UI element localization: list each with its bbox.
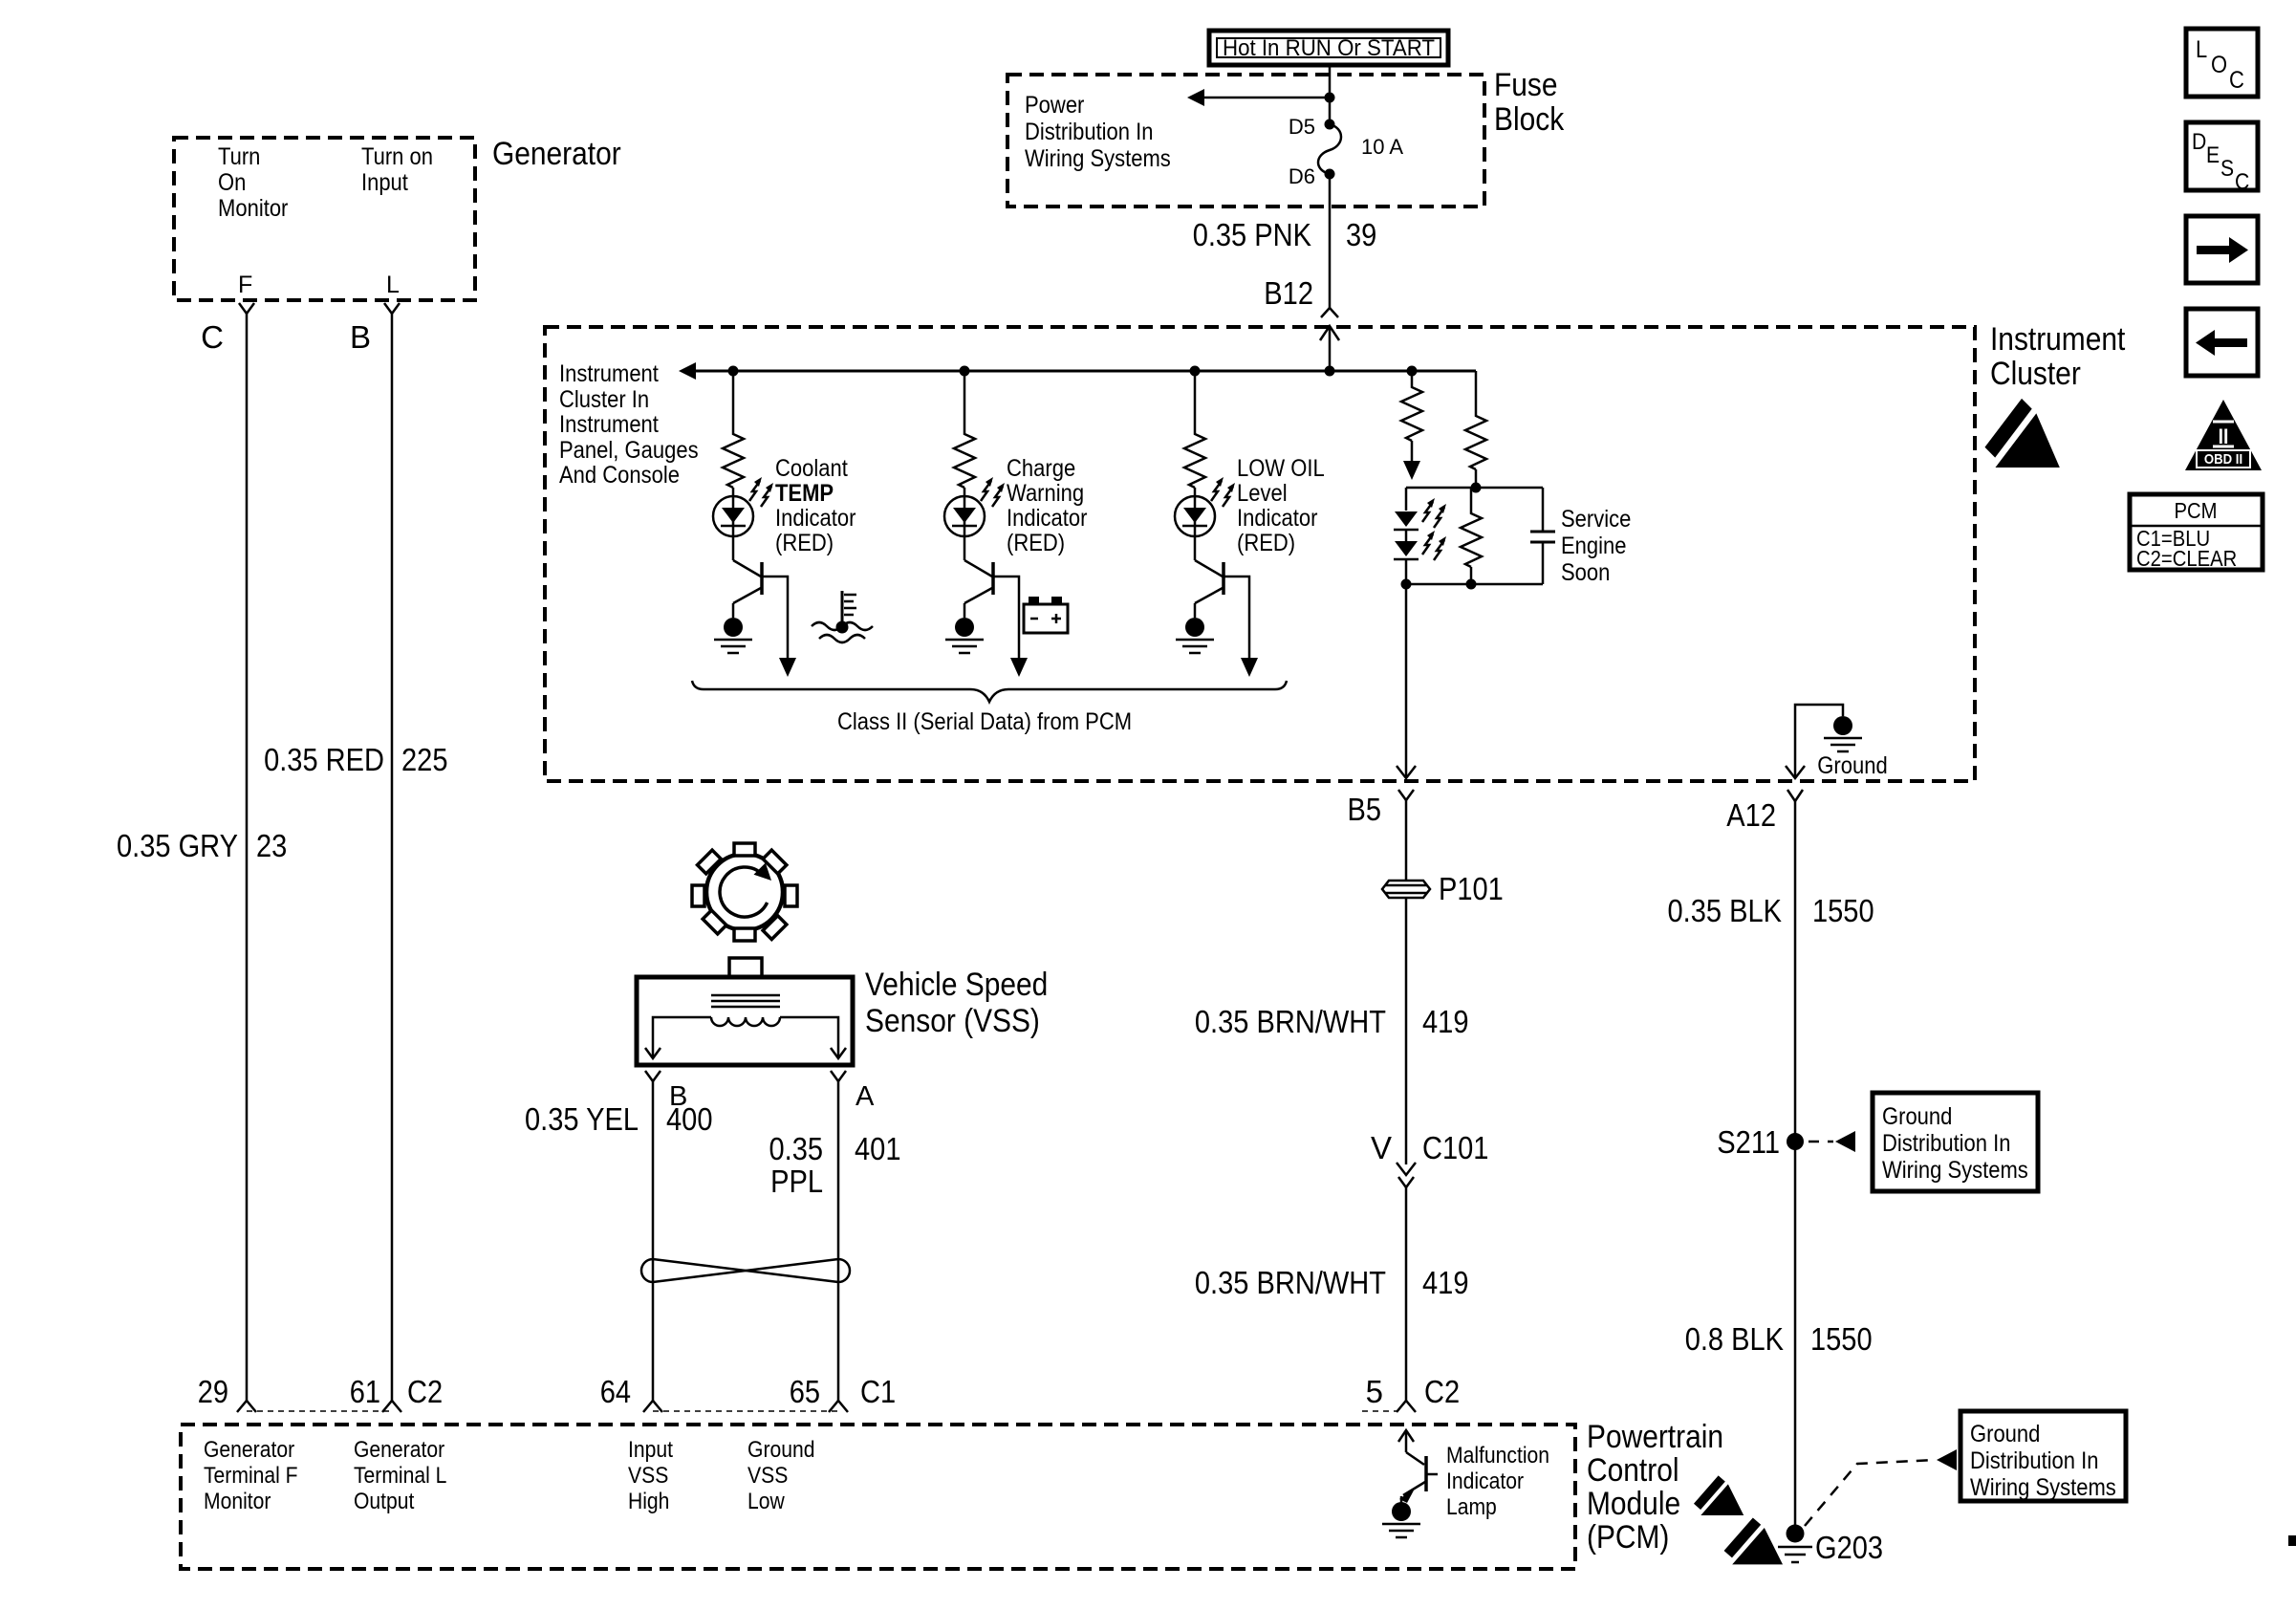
svg-text:Block: Block [1494, 101, 1565, 138]
svg-text:C1: C1 [860, 1374, 896, 1409]
svg-text:Lamp: Lamp [1446, 1494, 1497, 1520]
svg-text:400: 400 [666, 1101, 713, 1137]
svg-text:And Console: And Console [559, 462, 680, 489]
svg-text:High: High [628, 1489, 669, 1514]
svg-text:P101: P101 [1439, 871, 1504, 906]
svg-text:C: C [2235, 169, 2249, 195]
wire from Hot box into fuse block [1329, 65, 1332, 124]
svg-text:Vehicle Speed: Vehicle Speed [865, 967, 1048, 1003]
wire [1194, 371, 1197, 430]
wire [1475, 469, 1478, 488]
svg-text:S: S [2220, 156, 2234, 182]
svg-text:Turn: Turn [218, 143, 260, 170]
resistor (SES driver) [1401, 383, 1422, 441]
icon: OBD II triangle [2185, 400, 2262, 470]
svg-text:Distribution In: Distribution In [1970, 1447, 2099, 1474]
svg-text:Instrument: Instrument [559, 360, 659, 387]
svg-text:D6: D6 [1289, 164, 1315, 188]
svg-text:PCM: PCM [2175, 498, 2218, 523]
SES lamp network top rail [1406, 487, 1543, 490]
svg-text:0.35 BLK: 0.35 BLK [1668, 893, 1783, 928]
icon: battery [1024, 597, 1068, 633]
svg-text:(RED): (RED) [1007, 530, 1065, 556]
svg-text:Cluster In: Cluster In [559, 386, 649, 413]
svg-text:23: 23 [256, 828, 287, 863]
ground (MIL driver) [1382, 1502, 1420, 1537]
svg-text:Indicator: Indicator [775, 505, 856, 532]
svg-text:Powertrain: Powertrain [1587, 1419, 1723, 1455]
svg-text:Panel, Gauges: Panel, Gauges [559, 437, 699, 464]
vehicle speed sensor reluctor gear icon [673, 820, 816, 964]
node: junction to power distribution [1325, 93, 1335, 103]
svg-text:Level: Level [1237, 480, 1288, 507]
wire: arrow to Power Distribution [1197, 97, 1330, 99]
node on bus B12 feed [1325, 366, 1335, 377]
svg-text:Wiring Systems: Wiring Systems [1970, 1474, 2116, 1501]
dashed reference arrow from S211 [1809, 1141, 1833, 1143]
icon: right arrow box [2186, 216, 2258, 283]
generator dashed box [174, 138, 475, 300]
connector B (VSS) [645, 1071, 661, 1081]
svg-text:Generator: Generator [354, 1437, 444, 1463]
leads [653, 1017, 711, 1057]
svg-text:401: 401 [855, 1131, 901, 1166]
svg-text:PPL: PPL [770, 1164, 823, 1199]
fuse D5/D6 10 A [1289, 115, 1403, 188]
svg-text:Ground: Ground [1970, 1421, 2040, 1447]
splice S211 [1787, 1133, 1804, 1150]
LED coolant temp indicator [713, 496, 753, 536]
svg-text:D5: D5 [1289, 115, 1315, 139]
wire: 0.35 BRN/WHT 419 lower [1405, 1187, 1408, 1401]
svg-text:On: On [218, 169, 246, 196]
connector line C1 [653, 1410, 838, 1412]
pass-through P101 [1382, 871, 1504, 906]
svg-text:S211: S211 [1717, 1124, 1780, 1160]
box: Ground Distribution In Wiring Systems (G203) [1960, 1411, 2126, 1501]
svg-text:Hot In RUN Or START: Hot In RUN Or START [1223, 35, 1435, 61]
wire: 0.35 YEL 400 [652, 1081, 655, 1401]
wire: 0.35 PPL 401 [837, 1081, 840, 1401]
svg-text:Wiring Systems: Wiring Systems [1025, 145, 1171, 172]
svg-text:Distribution In: Distribution In [1882, 1130, 2011, 1157]
wire from SES to B5 [1405, 584, 1408, 777]
transistor driver (charge) [964, 560, 992, 577]
connector C2 pin 5 [1397, 1401, 1416, 1412]
ground symbol (instrument cluster) [1824, 716, 1862, 751]
svg-text:Low: Low [747, 1489, 785, 1514]
icon: DESC box [2186, 122, 2258, 195]
svg-text:Terminal F: Terminal F [204, 1463, 298, 1489]
wire: 0.35 BRN/WHT 419 [1405, 898, 1408, 1164]
wire: 0.35 BLK 1550 [1794, 801, 1797, 1142]
svg-text:5: 5 [1366, 1374, 1383, 1409]
page edge artifact [2288, 1535, 2296, 1546]
svg-text:Input: Input [628, 1437, 673, 1463]
ESD symbol (PCM lower) [1724, 1517, 1783, 1564]
svg-text:E: E [2206, 142, 2220, 168]
node on bus branch 1 [728, 366, 739, 377]
twisted pair symbol [641, 1259, 850, 1282]
ESD symbol (instrument cluster) [1984, 399, 2059, 468]
svg-text:Turn on: Turn on [361, 143, 433, 170]
core [711, 994, 780, 997]
svg-text:0.35 YEL: 0.35 YEL [525, 1101, 639, 1137]
wire [1194, 488, 1197, 536]
svg-text:V: V [1371, 1130, 1392, 1165]
svg-text:0.35 BRN/WHT: 0.35 BRN/WHT [1195, 1004, 1386, 1039]
resistor (charge warning indicator) [954, 430, 975, 488]
capacitor (SES) [1542, 488, 1545, 532]
svg-text:(RED): (RED) [775, 530, 834, 556]
svg-text:Monitor: Monitor [218, 195, 288, 222]
resistor (low oil indicator) [1184, 430, 1205, 488]
svg-text:B: B [350, 319, 371, 355]
service engine soon lamp circuit [1394, 371, 1555, 590]
svg-text:1550: 1550 [1812, 893, 1874, 928]
svg-text:G203: G203 [1815, 1530, 1883, 1565]
ground (charge driver) [945, 618, 984, 653]
pin 61 [382, 1401, 401, 1412]
connector A (VSS) [831, 1071, 846, 1081]
ESD symbol (PCM upper) [1694, 1475, 1744, 1515]
svg-text:Input: Input [361, 169, 408, 196]
svg-text:0.35 GRY: 0.35 GRY [117, 828, 238, 863]
svg-text:A12: A12 [1726, 797, 1776, 833]
vehicle speed sensor body [637, 958, 853, 1065]
svg-text:C: C [2229, 67, 2244, 94]
svg-text:0.35 RED: 0.35 RED [264, 742, 384, 777]
svg-text:Generator: Generator [492, 136, 621, 172]
LED pair (service engine soon) [1405, 488, 1408, 511]
svg-text:Monitor: Monitor [204, 1489, 271, 1514]
coil [711, 1017, 780, 1026]
svg-text:Generator: Generator [204, 1437, 294, 1463]
svg-text:Indicator: Indicator [1007, 505, 1087, 532]
svg-text:419: 419 [1422, 1265, 1469, 1300]
resistor (SES supply) [1465, 412, 1486, 469]
legend box: PCM connectors [2130, 494, 2263, 571]
svg-text:Service: Service [1561, 506, 1631, 533]
LED low oil level indicator [1175, 496, 1215, 536]
svg-text:VSS: VSS [747, 1463, 788, 1489]
svg-text:(RED): (RED) [1237, 530, 1295, 556]
svg-text:225: 225 [401, 742, 448, 777]
box: Ground Distribution In Wiring Systems (S211) [1873, 1093, 2038, 1191]
wire [732, 536, 735, 560]
svg-text:0.35 BRN/WHT: 0.35 BRN/WHT [1195, 1265, 1386, 1300]
node on bus branch 2 [960, 366, 970, 377]
wire with arrow into lamp [1411, 441, 1414, 463]
wire: 0.35 PNK 39 from fuse to B12 [1329, 174, 1332, 308]
svg-text:Output: Output [354, 1489, 415, 1514]
svg-text:OBD II: OBD II [2204, 451, 2242, 468]
wire [1194, 536, 1197, 560]
svg-text:29: 29 [198, 1374, 228, 1409]
connector A12 [1787, 790, 1803, 801]
SES lamp network bottom rail [1406, 583, 1543, 586]
icon: left arrow box [2186, 309, 2258, 376]
svg-text:C101: C101 [1422, 1130, 1488, 1165]
svg-text:Wiring Systems: Wiring Systems [1882, 1157, 2028, 1184]
svg-text:0.8 BLK: 0.8 BLK [1685, 1321, 1784, 1357]
svg-text:Class II (Serial Data) from PC: Class II (Serial Data) from PCM [837, 708, 1132, 735]
pin 65 [829, 1401, 848, 1412]
svg-text:39: 39 [1346, 217, 1376, 252]
svg-text:C2: C2 [1424, 1374, 1460, 1409]
svg-text:Malfunction: Malfunction [1446, 1443, 1549, 1469]
svg-text:L: L [386, 272, 400, 298]
svg-text:10 A: 10 A [1361, 135, 1403, 159]
fuse block dashed box [1007, 75, 1484, 207]
svg-text:Engine: Engine [1561, 533, 1627, 559]
svg-text:LOW OIL: LOW OIL [1237, 455, 1325, 482]
svg-text:C2=CLEAR: C2=CLEAR [2136, 546, 2237, 571]
svg-text:Terminal L: Terminal L [354, 1463, 446, 1489]
wire (SES supply from bus corner) [1475, 371, 1478, 412]
wire: serial data bus inside cluster [682, 370, 1476, 373]
wire (SES driver) [1411, 371, 1414, 383]
svg-text:0.35: 0.35 [769, 1131, 824, 1166]
indicator branch 1: Coolant TEMP [713, 371, 796, 677]
svg-text:Ground: Ground [1882, 1103, 1952, 1130]
arrow out of cluster [1786, 766, 1805, 778]
icon: LOC box [2186, 29, 2258, 97]
wire: 0.8 BLK 1550 [1794, 1142, 1797, 1526]
svg-text:Ground: Ground [1817, 752, 1887, 779]
resistor (coolant temp indicator) [723, 430, 744, 488]
transistor driver (coolant) [733, 560, 761, 577]
svg-text:61: 61 [350, 1374, 380, 1409]
svg-text:II: II [2219, 424, 2229, 448]
box: Hot In RUN Or START [1209, 31, 1448, 65]
wire: 0.35 RED 225 (generator L to PCM 61) [391, 314, 394, 1401]
svg-text:L: L [2196, 36, 2207, 63]
svg-text:VSS: VSS [628, 1463, 668, 1489]
svg-text:Coolant: Coolant [775, 455, 848, 482]
svg-text:TEMP: TEMP [775, 480, 834, 507]
svg-text:1550: 1550 [1810, 1321, 1873, 1357]
transistor driver (low oil) [1195, 560, 1223, 577]
brace: Class II (Serial Data) from PCM [692, 681, 1287, 702]
svg-text:(PCM): (PCM) [1587, 1519, 1669, 1556]
indicator branch 2: Charge Warning [944, 371, 1028, 677]
svg-text:A: A [856, 1081, 875, 1112]
svg-text:64: 64 [600, 1374, 631, 1409]
node on bus SES branch [1407, 366, 1418, 377]
icon: coolant thermometer [812, 591, 873, 642]
svg-text:Indicator: Indicator [1446, 1469, 1524, 1494]
svg-text:0.35 PNK: 0.35 PNK [1193, 217, 1311, 252]
wire [964, 488, 966, 536]
LED charge warning indicator [944, 496, 985, 536]
svg-text:Cluster: Cluster [1990, 356, 2081, 392]
ground G203 [1778, 1525, 1883, 1566]
ground wire inside instrument cluster [1795, 705, 1843, 777]
dashed reference line from G203 [1805, 1460, 1935, 1526]
svg-text:B5: B5 [1348, 792, 1382, 827]
svg-text:B12: B12 [1264, 275, 1313, 311]
svg-text:Distribution In: Distribution In [1025, 119, 1154, 145]
pin 29 [237, 1401, 256, 1412]
svg-text:Fuse: Fuse [1494, 67, 1558, 103]
ground (low oil driver) [1176, 618, 1214, 653]
svg-text:Charge: Charge [1007, 455, 1075, 482]
wire [732, 371, 735, 430]
ground (coolant driver) [714, 618, 752, 653]
connector line C2 [247, 1410, 392, 1412]
svg-text:Warning: Warning [1007, 480, 1084, 507]
wire: 0.35 GRY 23 (generator F to PCM 29) [246, 314, 249, 1401]
svg-text:F: F [238, 272, 252, 298]
malfunction indicator lamp driver transistor [1382, 1430, 1438, 1537]
svg-text:Control: Control [1587, 1452, 1679, 1489]
svg-text:O: O [2211, 52, 2227, 78]
connector B5 [1398, 790, 1414, 800]
wire B5 to P101 [1405, 800, 1408, 881]
wire [964, 371, 966, 430]
PCM dashed box [181, 1425, 1575, 1569]
pin 64 [643, 1401, 662, 1412]
svg-text:65: 65 [790, 1374, 820, 1409]
svg-text:Power: Power [1025, 92, 1084, 119]
svg-text:Ground: Ground [747, 1437, 815, 1463]
instrument cluster dashed box [545, 327, 1975, 781]
wire [732, 488, 735, 536]
indicator branch 3: LOW OIL Level [1175, 371, 1258, 677]
svg-text:C2: C2 [407, 1374, 443, 1409]
wire [964, 536, 966, 560]
svg-text:Indicator: Indicator [1237, 505, 1317, 532]
node on bus branch 3 [1190, 366, 1201, 377]
resistor (SES lamp parallel) [1470, 488, 1473, 510]
svg-text:Sensor (VSS): Sensor (VSS) [865, 1003, 1040, 1039]
svg-text:Instrument: Instrument [1990, 321, 2126, 358]
svg-text:Module: Module [1587, 1486, 1680, 1522]
connector C101 pin V [1397, 1163, 1416, 1175]
svg-text:D: D [2192, 129, 2206, 155]
svg-text:419: 419 [1422, 1004, 1469, 1039]
svg-text:Soon: Soon [1561, 559, 1610, 586]
svg-text:Instrument: Instrument [559, 411, 659, 438]
svg-text:C: C [201, 319, 224, 355]
